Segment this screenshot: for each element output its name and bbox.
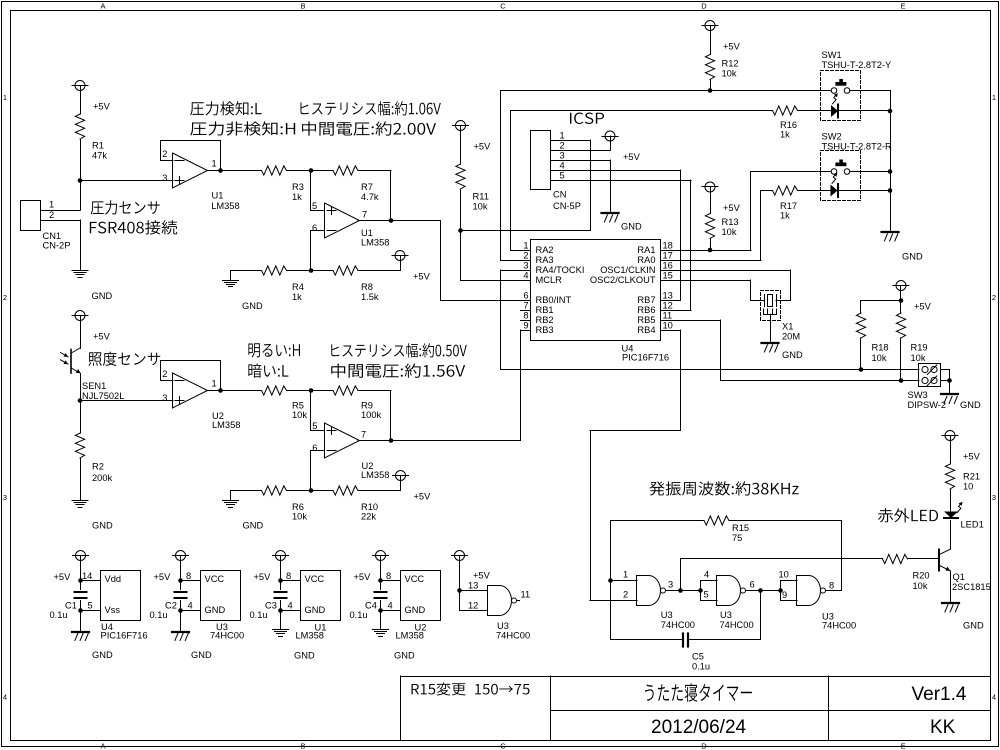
- svg-text:C: C: [500, 2, 506, 11]
- svg-text:4: 4: [3, 693, 7, 702]
- svg-text:+5V: +5V: [93, 102, 111, 112]
- ground Q1: [942, 602, 959, 604]
- wire node A to CN1 pin1: [80, 181, 82, 211]
- wire R20 to Q1 base: [908, 558, 939, 560]
- comment pressure thresholds: [190, 101, 261, 115]
- wire to U1b pin5: [310, 171, 312, 211]
- ground power block U2: [380, 611, 382, 630]
- ground pin 5 of U4: [78, 608, 83, 613]
- svg-text:RB5: RB5: [637, 315, 655, 325]
- spare gate output pin11 stub: [517, 600, 520, 602]
- svg-text:MCLR: MCLR: [536, 275, 563, 285]
- ground power block U3: [180, 611, 182, 632]
- resistor R13: [705, 214, 714, 239]
- wire RB5 to SW3: [671, 320, 721, 322]
- svg-text:12: 12: [663, 301, 673, 311]
- svg-text:RB6: RB6: [637, 305, 655, 315]
- svg-text:VCC: VCC: [305, 574, 325, 584]
- svg-text:GND: GND: [294, 651, 315, 661]
- svg-text:RB0/INT: RB0/INT: [536, 295, 572, 305]
- wire SW2 to ground rail: [850, 171, 890, 173]
- svg-text:SW2: SW2: [822, 132, 842, 142]
- resistor R7: [333, 166, 358, 175]
- svg-text:Vdd: Vdd: [105, 574, 122, 584]
- svg-text:2: 2: [560, 141, 565, 151]
- svg-text:+5V: +5V: [93, 332, 111, 342]
- svg-text:R12: R12: [722, 59, 739, 69]
- svg-text:C: C: [500, 742, 506, 750]
- svg-text:2: 2: [623, 590, 628, 600]
- wire RA1 to SW2: [671, 250, 752, 252]
- wire ground to R6: [231, 490, 262, 492]
- junction U3a output: [678, 588, 683, 593]
- svg-text:10k: 10k: [913, 581, 928, 591]
- svg-text:Q1: Q1: [953, 572, 965, 582]
- wire SW1 net to RA3: [501, 90, 832, 92]
- pin 7 RB1 of U4: [521, 310, 531, 312]
- connector CN CN-5P ICSP: [531, 131, 551, 190]
- svg-text:10: 10: [779, 570, 789, 580]
- svg-text:RA0: RA0: [637, 255, 655, 265]
- svg-text:LM358: LM358: [296, 631, 324, 641]
- resistor R18: [856, 313, 865, 338]
- svg-text:R10: R10: [361, 502, 378, 512]
- svg-text:R13: R13: [722, 217, 739, 227]
- svg-text:R18: R18: [872, 343, 889, 353]
- svg-text:47k: 47k: [92, 151, 107, 161]
- title block table: [401, 676, 991, 678]
- wire CN1 pin2 to ground: [41, 220, 81, 222]
- power box U4 PIC16F716: [101, 571, 141, 621]
- LED inside SW2: [831, 185, 838, 197]
- NAND gate U3c: [797, 576, 821, 606]
- resistor R3: [262, 166, 287, 175]
- svg-text:5: 5: [560, 171, 565, 181]
- svg-text:2: 2: [162, 369, 167, 379]
- junction R5/R9/U2b pin5: [309, 388, 314, 393]
- resistor R6: [262, 486, 287, 495]
- svg-text:1: 1: [3, 93, 7, 102]
- svg-text:10: 10: [963, 482, 973, 492]
- pin 16 OSC1/CLKIN of U4: [661, 270, 671, 272]
- svg-text:RA2: RA2: [536, 245, 554, 255]
- comment pressure sensor: [91, 200, 160, 214]
- NAND gate U3d spare: [488, 586, 512, 616]
- svg-text:10k: 10k: [722, 69, 737, 79]
- svg-text:NJL7502L: NJL7502L: [82, 391, 124, 401]
- comment oscillator frequency: [649, 481, 798, 495]
- wire R21 to LED1: [950, 489, 952, 511]
- resistor R19: [900, 301, 902, 314]
- svg-text:R8: R8: [361, 282, 373, 292]
- svg-text:GND: GND: [960, 400, 981, 410]
- svg-text:10k: 10k: [722, 227, 737, 237]
- junction +5V R19: [899, 298, 904, 303]
- +5V supply R18 R19: [896, 281, 906, 291]
- wire RB4 to oscillator gate input: [671, 330, 681, 332]
- ground pin 4 of U2: [378, 608, 383, 613]
- svg-text:0.1u: 0.1u: [350, 610, 368, 620]
- ground for R4: [230, 271, 232, 281]
- junction RA1/R13: [708, 248, 713, 253]
- wire SW1 LED cathode to ground rail: [839, 110, 891, 112]
- pin 5 of CN ICSP: [551, 180, 559, 182]
- svg-text:7: 7: [362, 210, 367, 220]
- resistor R11: [456, 164, 465, 189]
- power box U3 74HC00: [201, 571, 241, 621]
- LED inside SW1: [831, 105, 838, 117]
- svg-text:14: 14: [82, 571, 92, 581]
- wire U3a output node: [666, 590, 701, 592]
- svg-text:4: 4: [188, 601, 193, 611]
- svg-text:74HC00: 74HC00: [720, 620, 754, 630]
- LED1 infrared: [944, 512, 958, 519]
- op-amp U1a: [173, 153, 208, 188]
- svg-text:A: A: [100, 742, 105, 750]
- svg-text:200k: 200k: [92, 473, 113, 483]
- svg-text:3: 3: [668, 580, 673, 590]
- svg-text:2: 2: [523, 251, 528, 261]
- svg-text:6: 6: [523, 291, 528, 301]
- op-amp U2a: [173, 373, 208, 408]
- svg-text:RB3: RB3: [536, 325, 554, 335]
- svg-text:U3: U3: [661, 610, 673, 620]
- svg-text:R5: R5: [292, 401, 304, 411]
- svg-text:0.1u: 0.1u: [50, 610, 68, 620]
- svg-text:+5V: +5V: [623, 152, 641, 162]
- svg-text:+5V: +5V: [154, 572, 172, 582]
- +5V supply for SEN1: [75, 311, 85, 321]
- svg-text:LED1: LED1: [961, 520, 984, 530]
- capacitor C3 0.1u: [280, 581, 282, 590]
- svg-text:+5V: +5V: [473, 571, 491, 581]
- svg-text:LM358: LM358: [212, 420, 240, 430]
- svg-text:+5V: +5V: [413, 272, 431, 282]
- ground SW3: [941, 393, 958, 395]
- pin 6 RB0/INT of U4: [521, 300, 531, 302]
- wire R11 to MCLR net: [460, 189, 462, 231]
- svg-text:6: 6: [750, 580, 755, 590]
- wire SW1 to ground rail: [850, 90, 890, 92]
- wire RB4 net to U3a pin2: [590, 600, 637, 602]
- svg-text:E: E: [900, 2, 905, 11]
- svg-text:R20: R20: [913, 571, 930, 581]
- node B junction SEN1/R2/U2a: [78, 398, 83, 403]
- wire U1b output to RB0 route: [358, 220, 441, 222]
- wire to U1b pin6: [310, 231, 312, 271]
- svg-text:VCC: VCC: [405, 574, 425, 584]
- resistor R21: [945, 464, 954, 489]
- svg-text:GND: GND: [205, 605, 226, 615]
- svg-text:SW1: SW1: [822, 50, 842, 60]
- svg-text:RB2: RB2: [536, 315, 554, 325]
- pin 9 RB3 of U4: [521, 330, 531, 332]
- svg-text:18: 18: [663, 241, 673, 251]
- svg-text:GND: GND: [92, 650, 113, 660]
- svg-text:10k: 10k: [872, 353, 887, 363]
- svg-text:U3: U3: [497, 621, 509, 631]
- wire pin1 to gate U3a: [611, 580, 638, 582]
- svg-text:4: 4: [704, 570, 709, 580]
- svg-text:2: 2: [3, 293, 7, 302]
- +5V supply power block U3: [176, 551, 186, 561]
- svg-text:GND: GND: [621, 222, 642, 232]
- svg-text:R9: R9: [361, 401, 373, 411]
- power box U2 LM358: [401, 571, 441, 621]
- svg-text:R4: R4: [292, 282, 304, 292]
- op-amp U2b: [325, 423, 360, 458]
- svg-text:13: 13: [663, 291, 673, 301]
- wire U3b input bracket: [700, 581, 702, 601]
- title note R15 change: [412, 682, 530, 695]
- svg-text:R17: R17: [780, 201, 797, 211]
- svg-text:1k: 1k: [292, 292, 302, 302]
- svg-text:16: 16: [663, 261, 673, 271]
- resistor R1: [75, 114, 84, 139]
- +5V supply R11: [456, 121, 466, 131]
- svg-text:RA3: RA3: [536, 255, 554, 265]
- junction U3b input node: [698, 588, 703, 593]
- svg-text:RB4: RB4: [637, 325, 655, 335]
- wire RB6 to ICSP pin5: [671, 310, 692, 312]
- pin 1 of CN ICSP: [551, 140, 559, 142]
- title name utatane timer: [645, 683, 752, 701]
- power pin 8 of U3: [178, 578, 183, 583]
- svg-text:R6: R6: [292, 502, 304, 512]
- svg-text:8: 8: [286, 571, 291, 581]
- svg-text:1: 1: [523, 241, 528, 251]
- junction U2b output: [389, 438, 394, 443]
- op-amp U1b: [325, 203, 360, 238]
- resistor R15: [704, 516, 729, 525]
- svg-text:0.1u: 0.1u: [150, 610, 168, 620]
- wire R18 to RA4 net: [860, 338, 862, 370]
- svg-text:1k: 1k: [780, 211, 790, 221]
- wire ICSP pin1 to MCLR net: [559, 140, 591, 142]
- pin 2 RA3 of U4: [521, 260, 531, 262]
- svg-text:4.7k: 4.7k: [361, 192, 379, 202]
- svg-text:1k: 1k: [780, 130, 790, 140]
- ground power block U4: [80, 611, 82, 632]
- svg-text:12: 12: [468, 601, 478, 611]
- svg-text:74HC00: 74HC00: [822, 621, 856, 631]
- wire SEN1 emitter to node B: [80, 374, 82, 401]
- wire Q1 emitter to ground: [950, 571, 952, 603]
- ground R2: [72, 500, 88, 502]
- junction R19/RB5 net: [899, 378, 904, 383]
- svg-text:4: 4: [388, 601, 393, 611]
- svg-text:5: 5: [704, 590, 709, 600]
- svg-text:75: 75: [732, 533, 742, 543]
- svg-text:SW3: SW3: [908, 390, 928, 400]
- svg-text:7: 7: [361, 430, 366, 440]
- resistor R2: [75, 433, 84, 458]
- svg-text:GND: GND: [92, 291, 113, 301]
- wire RA4 net to SW3: [501, 270, 521, 272]
- capacitor C5 0.1u: [682, 634, 684, 647]
- wire R10 to +5V: [358, 490, 401, 492]
- pin 4 MCLR of U4: [521, 280, 531, 282]
- svg-text:100k: 100k: [361, 410, 382, 420]
- svg-text:C3: C3: [265, 601, 277, 611]
- svg-text:5: 5: [88, 601, 93, 611]
- svg-text:+5V: +5V: [914, 302, 932, 312]
- ground pin 4 of U3: [178, 608, 183, 613]
- pin 2 of CN ICSP: [551, 150, 559, 152]
- +5V supply R13: [705, 182, 715, 192]
- pin 12 RB6 of U4: [661, 310, 671, 312]
- svg-text:GND: GND: [242, 301, 263, 311]
- svg-text:B: B: [300, 742, 305, 750]
- svg-text:LM358: LM358: [361, 238, 389, 248]
- svg-text:+5V: +5V: [474, 142, 492, 152]
- power box U1 LM358: [301, 571, 341, 621]
- wire ICSP pin5 to RB6: [559, 180, 691, 182]
- svg-text:6: 6: [312, 223, 317, 233]
- wire R4 to R8: [287, 270, 334, 272]
- svg-text:2: 2: [992, 293, 996, 302]
- svg-text:20M: 20M: [782, 332, 800, 342]
- svg-text:Ver1.4: Ver1.4: [912, 684, 967, 705]
- svg-text:RA4/TOCKI: RA4/TOCKI: [536, 265, 585, 275]
- resistor R20: [883, 554, 908, 563]
- +5V supply for R10: [396, 471, 406, 481]
- svg-text:10k: 10k: [473, 202, 488, 212]
- capacitor C1 0.1u: [80, 581, 82, 590]
- spare gate U3 pin13 junction: [457, 588, 462, 593]
- svg-text:1: 1: [49, 200, 54, 210]
- svg-text:D: D: [701, 742, 707, 750]
- wire R17 to SW2 LED: [798, 190, 831, 192]
- svg-text:CN1: CN1: [43, 231, 62, 241]
- wire U3c input bracket: [780, 581, 782, 601]
- svg-text:VCC: VCC: [205, 574, 225, 584]
- svg-text:11: 11: [521, 590, 531, 600]
- +5V supply for R1: [75, 81, 85, 91]
- junction R11/MCLR net: [458, 228, 463, 233]
- svg-text:5: 5: [312, 201, 317, 211]
- wire ICSP pin2 to +5V: [559, 150, 610, 152]
- svg-text:3: 3: [162, 393, 167, 403]
- svg-text:2012/06/24: 2012/06/24: [651, 717, 747, 738]
- svg-text:A: A: [100, 2, 105, 11]
- junction R18/RA4 net: [859, 367, 864, 372]
- svg-text:1: 1: [212, 159, 217, 169]
- svg-text:GND: GND: [963, 621, 984, 631]
- resistor R12: [705, 55, 714, 80]
- +5V supply for R8: [395, 251, 405, 261]
- wire MCLR net to U4 pin4: [460, 231, 462, 281]
- wire feedback R15 loop: [610, 521, 612, 581]
- wire +5V to SEN1 collector: [80, 321, 82, 349]
- crystal X1 20M: [764, 295, 766, 307]
- svg-text:10k: 10k: [292, 410, 307, 420]
- svg-text:10k: 10k: [911, 353, 926, 363]
- svg-text:R15: R15: [732, 523, 749, 533]
- svg-text:R2: R2: [92, 462, 104, 472]
- svg-text:3: 3: [3, 493, 7, 502]
- switch SW3 DIPSW-2: [919, 364, 941, 387]
- svg-text:3: 3: [523, 261, 528, 271]
- wire U1a feedback loop: [161, 141, 221, 171]
- wire U3c output: [826, 590, 842, 592]
- wire R9 to U2b output: [358, 390, 391, 392]
- svg-text:74HC00: 74HC00: [210, 631, 244, 641]
- junction U3c input node: [778, 588, 783, 593]
- svg-text:6: 6: [312, 443, 317, 453]
- wire ground to R4: [231, 270, 262, 272]
- svg-text:4: 4: [992, 693, 996, 702]
- svg-text:R21: R21: [963, 472, 980, 482]
- ground pin 4 of U1: [278, 608, 283, 613]
- svg-text:7: 7: [523, 301, 528, 311]
- junction SW1 LED/ground rail: [888, 109, 893, 114]
- svg-text:PIC16F716: PIC16F716: [622, 353, 669, 363]
- svg-text:74HC00: 74HC00: [661, 620, 695, 630]
- +5V supply power block U2: [376, 551, 386, 561]
- wire U2b output to RB3 route: [358, 440, 521, 442]
- svg-text:+5V: +5V: [54, 572, 72, 582]
- svg-text:LM358: LM358: [211, 201, 239, 211]
- wire U3a output to R20: [680, 559, 682, 591]
- resistor R8: [333, 266, 358, 275]
- wire SW2 LED cathode to ground rail: [839, 190, 891, 192]
- pin 17 RA0 of U4: [661, 260, 671, 262]
- wire +5V to R1: [80, 91, 82, 115]
- +5V supply power block U1: [276, 551, 286, 561]
- wire U2a feedback loop: [161, 361, 221, 391]
- svg-text:TSHU-T-2.8T2-Y: TSHU-T-2.8T2-Y: [822, 60, 892, 70]
- wire R15 to U3c output: [729, 520, 842, 522]
- svg-text:1: 1: [623, 570, 628, 580]
- svg-text:8: 8: [523, 311, 528, 321]
- wire C5 loop: [760, 591, 762, 640]
- resistor R10: [333, 486, 358, 495]
- svg-text:17: 17: [663, 251, 673, 261]
- junction U3a pin1 node: [608, 578, 613, 583]
- wire ICSP pin3 to ground: [559, 160, 610, 162]
- svg-text:SEN1: SEN1: [82, 381, 106, 391]
- wire node B to R2: [80, 401, 82, 434]
- junction R12/SW1 net: [708, 88, 713, 93]
- junction SW3 ground: [947, 378, 952, 383]
- svg-text:1k: 1k: [292, 192, 302, 202]
- svg-text:9: 9: [782, 590, 787, 600]
- svg-text:3: 3: [560, 151, 565, 161]
- wire U2a output: [208, 390, 262, 392]
- pin 3 RA4/TOCKI of U4: [521, 270, 531, 272]
- svg-text:OSC2/CLKOUT: OSC2/CLKOUT: [590, 275, 656, 285]
- comment light thresholds: [248, 343, 300, 357]
- svg-text:2: 2: [49, 210, 54, 220]
- pin 13 RB7 of U4: [661, 300, 671, 302]
- wire OSC2 to X1: [671, 280, 751, 282]
- svg-text:R16: R16: [780, 120, 797, 130]
- svg-text:CN-5P: CN-5P: [553, 201, 581, 211]
- svg-text:GND: GND: [243, 521, 264, 531]
- svg-text:C2: C2: [165, 601, 177, 611]
- svg-text:D: D: [701, 2, 707, 11]
- wire U1b output to RB0: [440, 221, 442, 301]
- svg-text:+5V: +5V: [254, 572, 272, 582]
- svg-text:10: 10: [663, 321, 673, 331]
- svg-text:1: 1: [992, 93, 996, 102]
- connector CN1 CN-2P: [21, 201, 41, 231]
- ground X1: [762, 342, 779, 344]
- svg-text:2SC1815: 2SC1815: [952, 582, 991, 592]
- pin 18 RA1 of U4: [661, 250, 671, 252]
- wire ICSP pin4 to RB7: [559, 170, 681, 172]
